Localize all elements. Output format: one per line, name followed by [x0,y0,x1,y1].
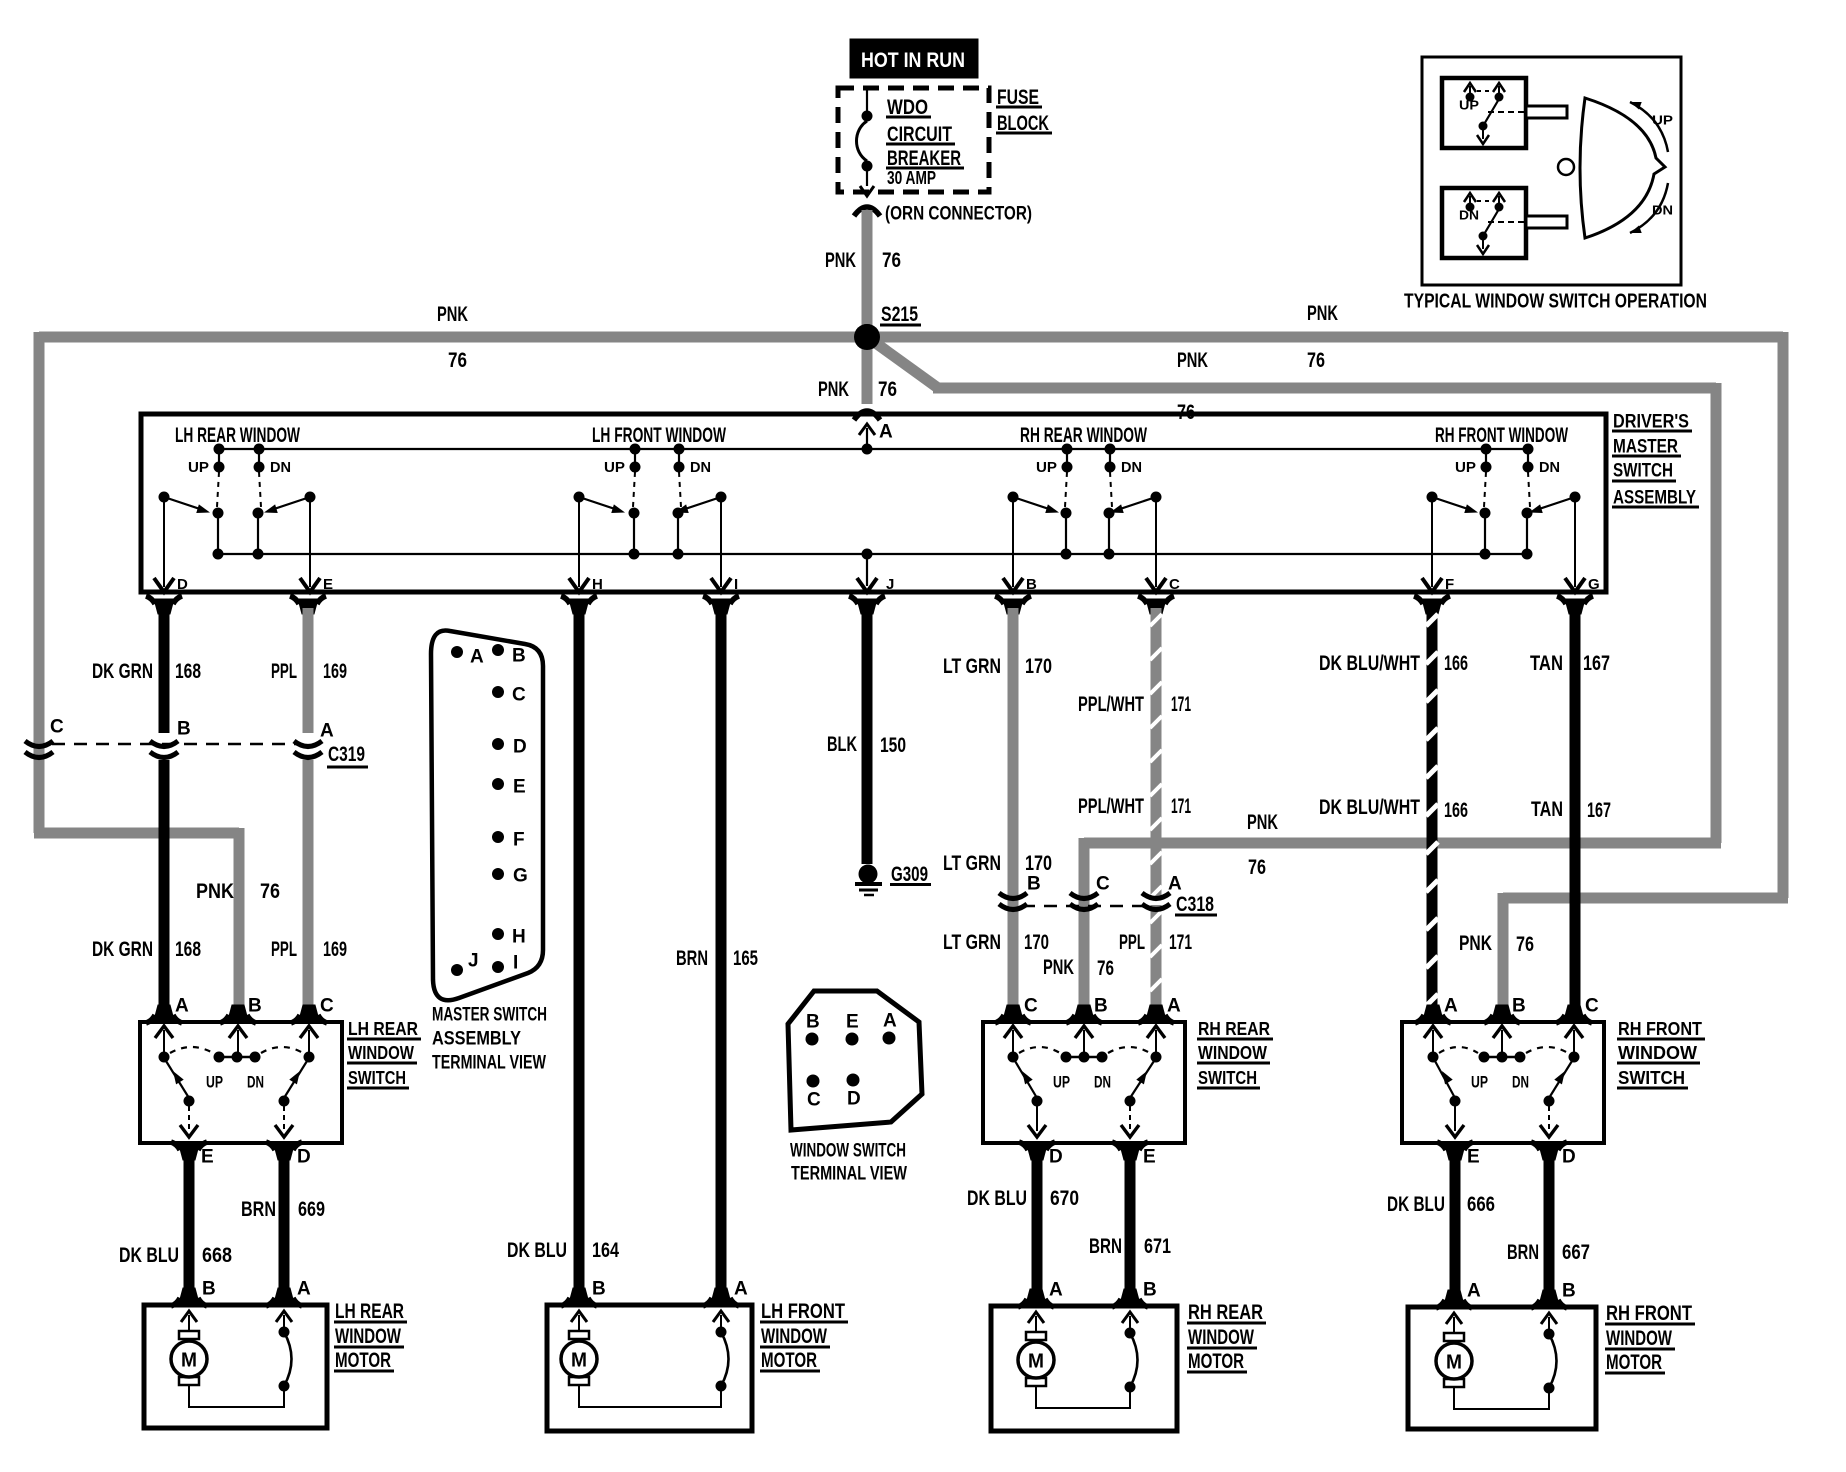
wire PNK 76 left branch horizontal to LH rear switch [34,828,239,839]
svg-text:76: 76 [1248,856,1266,879]
svg-text:B: B [512,646,526,667]
terminal view pin A [451,646,463,658]
svg-text:J: J [886,576,894,593]
svg-text:D: D [297,1147,311,1168]
wire LT GRN 170 (master B to RH rear switch C) [1008,608,1019,1008]
svg-text:170: 170 [1025,852,1052,875]
svg-text:DK GRN: DK GRN [92,938,153,961]
svg-text:668: 668 [202,1244,232,1267]
connector (ORN CONNECTOR) [854,207,880,216]
wire DK BLU 668 (LH rear switch E to motor B) [184,1157,195,1292]
splice S215 [854,324,880,350]
svg-text:DK BLU: DK BLU [967,1187,1027,1210]
terminal view pin I [492,961,504,973]
wire PNK 76 down to connector C318 cavity C [1079,838,1090,1008]
svg-text:C: C [320,996,334,1017]
svg-text:D: D [1562,1147,1576,1168]
svg-text:C318: C318 [1176,893,1214,916]
svg-text:E: E [323,576,333,593]
wire BRN 165 (master I to LH front motor A) [716,608,727,1292]
output lines to bottom pins [1036,1106,1038,1131]
svg-text:BRN: BRN [241,1198,276,1221]
svg-text:167: 167 [1587,799,1611,822]
svg-text:C: C [1169,576,1180,593]
pin arrows (top) [155,1026,173,1038]
svg-text:B: B [806,1012,820,1033]
svg-text:UP: UP [1036,459,1057,476]
svg-text:TYPICAL WINDOW SWITCH OPERATIO: TYPICAL WINDOW SWITCH OPERATION [1404,290,1707,312]
svg-text:PNK: PNK [1459,932,1492,955]
svg-text:M: M [1446,1351,1462,1373]
svg-text:A: A [883,1011,897,1032]
svg-text:SWITCH: SWITCH [1618,1068,1685,1088]
circuit breaker WDO 30 AMP [866,88,868,112]
svg-text:PNK: PNK [825,249,856,272]
window motor box [547,1305,752,1431]
svg-text:B: B [1562,1281,1576,1302]
svg-text:DK BLU: DK BLU [1387,1193,1445,1216]
svg-text:DN: DN [1094,1072,1111,1091]
terminal view pin B [492,644,504,656]
svg-text:UP: UP [188,459,209,476]
wire PNK 76 left branch down to LH rear window switch pin B [234,828,245,1008]
svg-text:PNK: PNK [1247,811,1278,834]
motor armature M [569,1331,589,1339]
svg-text:WINDOW: WINDOW [335,1325,401,1348]
svg-text:I: I [513,953,518,974]
svg-text:LH REAR: LH REAR [335,1300,404,1323]
inset arrow DN [1630,183,1668,233]
svg-text:C: C [1585,996,1599,1017]
connector terminals at motor pins [1026,1289,1046,1304]
typical window switch operation inset box [1422,57,1681,285]
switch unit LH FRONT WINDOW feed stubs and contacts UP/DN [630,444,641,455]
motor armature M [179,1331,199,1339]
wire DK GRN 168 (master D to LH rear switch A) [159,608,170,733]
svg-text:LT GRN: LT GRN [943,655,1001,678]
terminal view pin E [492,778,504,790]
svg-text:RH FRONT: RH FRONT [1606,1302,1692,1325]
svg-text:PNK: PNK [1177,349,1208,372]
svg-text:WINDOW: WINDOW [1188,1326,1254,1349]
output lines to pins B C [1012,501,1014,587]
svg-text:B: B [177,719,191,740]
connector terminals at motor pins [569,1288,589,1303]
terminal view pin F [492,831,504,843]
output lines to pins F G [1431,501,1433,587]
svg-text:171: 171 [1171,693,1191,716]
svg-text:PNK: PNK [1307,302,1338,325]
wire DK BLU/WHT 166 (master F to RH front switch A) [1427,608,1438,1008]
svg-text:DK BLU: DK BLU [507,1239,567,1262]
svg-text:TAN: TAN [1531,798,1563,821]
svg-text:C: C [50,717,64,738]
contact row [159,1052,170,1063]
inset arrow UP [1630,102,1668,152]
svg-text:B: B [1026,576,1037,593]
svg-text:UP: UP [1652,112,1673,127]
svg-text:HOT IN RUN: HOT IN RUN [861,49,965,72]
svg-text:RH REAR: RH REAR [1188,1301,1263,1324]
dashed actuator links [1065,472,1067,507]
svg-text:LT GRN: LT GRN [943,852,1001,875]
rest contacts to output bus [1480,508,1491,519]
svg-text:WINDOW: WINDOW [761,1325,827,1348]
wiper pivots (outputs) [1008,492,1019,503]
svg-text:A: A [297,1279,311,1300]
svg-text:670: 670 [1050,1187,1079,1210]
wiper arms to outputs [166,1061,189,1098]
svg-text:UP: UP [1459,97,1479,112]
ground G309 [859,865,878,884]
svg-text:165: 165 [733,947,758,970]
inset mini switch UP [1442,78,1526,148]
splice S215 junction dot [854,324,880,350]
output lines to pins D E [163,501,165,587]
wire DK BLU 666 (RH front switch E to motor A) [1450,1157,1461,1292]
svg-text:B: B [1512,996,1526,1017]
dashed actuator links [1484,472,1486,507]
svg-text:DN: DN [1121,459,1142,476]
svg-text:UP: UP [1471,1072,1488,1091]
window switch box [1402,1022,1604,1143]
inset mini switch DN [1442,188,1526,258]
wire TAN 167 (master G to RH front switch C) [1570,608,1581,1008]
terminal view pin G [492,868,504,880]
svg-text:LH REAR: LH REAR [348,1019,418,1039]
svg-text:B: B [592,1279,606,1300]
rest contacts to output bus [629,508,640,519]
wire PPL/WHT 171 (master C to RH rear switch A) [1151,608,1162,900]
svg-text:S215: S215 [881,303,918,326]
svg-text:TERMINAL VIEW: TERMINAL VIEW [791,1164,907,1185]
svg-text:169: 169 [323,660,347,683]
svg-text:76: 76 [1307,349,1325,372]
pin J output from master switch [862,549,873,560]
svg-text:H: H [592,576,603,593]
svg-text:C: C [807,1090,821,1111]
svg-text:166: 166 [1444,799,1468,822]
window switch terminal view connector [788,991,922,1130]
svg-text:MOTOR: MOTOR [1188,1350,1244,1373]
svg-text:E: E [846,1012,859,1033]
terminal view pin D [492,738,504,750]
svg-text:B: B [1027,874,1041,895]
connector terminal at master switch output x=1156 [1146,599,1166,614]
svg-text:M: M [181,1349,197,1371]
connector terminal at master switch output x=1432 [1422,599,1442,614]
svg-text:TERMINAL VIEW: TERMINAL VIEW [432,1053,546,1074]
svg-text:DN: DN [690,459,711,476]
svg-text:ASSEMBLY: ASSEMBLY [432,1029,521,1050]
svg-text:E: E [201,1147,214,1168]
connector terminal at master switch output x=1575 [1565,599,1585,614]
wire PNK 76 outer right vertical [1778,332,1789,898]
connector terminal at master switch output x=867 [857,599,877,614]
svg-text:E: E [513,777,526,798]
svg-text:MOTOR: MOTOR [335,1349,391,1372]
svg-text:UP: UP [206,1072,223,1091]
svg-text:76: 76 [878,378,897,401]
motor commutator arc [1544,1329,1555,1340]
svg-text:RH REAR: RH REAR [1198,1019,1270,1039]
svg-text:BRN: BRN [676,947,708,970]
wire BRN 671 (RH rear switch E to motor B) [1125,1157,1136,1292]
svg-text:671: 671 [1144,1235,1171,1258]
svg-text:166: 166 [1444,652,1468,675]
svg-text:DN: DN [270,459,291,476]
wire BLK 150 (master J to ground G309) [862,608,873,864]
wire PNK 76 inner right vertical [1711,383,1722,843]
svg-text:RH FRONT WINDOW: RH FRONT WINDOW [1435,424,1568,447]
svg-text:DK BLU/WHT: DK BLU/WHT [1319,796,1420,819]
svg-text:G: G [1588,576,1600,593]
svg-text:76: 76 [260,880,280,903]
svg-text:DN: DN [247,1072,264,1091]
output lines to bottom pins [1454,1106,1456,1131]
connector terminal at master switch output x=308 [298,599,318,614]
svg-text:B: B [1094,996,1108,1017]
dashed actuator arcs [1019,1047,1060,1053]
svg-text:D: D [177,576,188,593]
svg-text:C319: C319 [328,743,365,766]
wire PNK 76 main horizontal bus [39,332,1783,343]
node: master switch feed bus (top) [219,448,1528,450]
connector at master switch pin A [854,411,880,420]
svg-text:PPL: PPL [1119,931,1145,954]
motor internal return path [1454,1387,1549,1409]
svg-text:PNK: PNK [196,880,234,903]
wiper pivots (outputs) [574,492,585,503]
svg-text:A: A [1049,1280,1063,1301]
svg-text:A: A [1167,996,1181,1017]
dashed actuator links [633,472,635,507]
svg-text:B: B [248,996,262,1017]
svg-text:168: 168 [175,660,201,683]
svg-text:B: B [202,1279,216,1300]
svg-text:MOTOR: MOTOR [761,1349,817,1372]
svg-text:171: 171 [1169,931,1192,954]
pin arrows (top) [1004,1026,1022,1038]
svg-text:WINDOW: WINDOW [1606,1327,1672,1350]
wire PNK 76 inner horizontal to RH rear switch column [1084,838,1721,849]
svg-text:PPL/WHT: PPL/WHT [1078,795,1144,818]
svg-text:PNK: PNK [437,303,468,326]
svg-text:C: C [1096,874,1110,895]
svg-text:BRN: BRN [1507,1241,1539,1264]
switch unit LH REAR WINDOW feed stubs and contacts UP/DN [214,444,225,455]
svg-text:76: 76 [882,249,901,272]
window motor box [991,1306,1177,1431]
wire DK BLU 670 (RH rear switch D to motor A) [1032,1157,1043,1292]
svg-text:BLK: BLK [827,733,857,756]
output lines to pins H I [578,501,580,587]
wire PNK 76 branch from S215 to master switch pin A [862,343,873,404]
motor armature M [1026,1332,1046,1340]
motor pin arrows [181,1311,197,1322]
switch unit RH FRONT WINDOW feed stubs and contacts UP/DN [1481,444,1492,455]
svg-text:J: J [468,951,479,972]
motor commutator arc [279,1327,290,1338]
connector terminal at master switch output x=721 [711,599,731,614]
svg-text:A: A [879,422,893,443]
dashed actuator links [217,472,219,507]
svg-text:SWITCH: SWITCH [1198,1068,1257,1088]
window switch terminal view pin E [846,1033,859,1046]
svg-text:F: F [1445,576,1454,593]
window switch box [140,1022,342,1143]
terminal view pin J [451,964,463,976]
svg-text:UP: UP [604,459,625,476]
svg-text:DK BLU: DK BLU [119,1244,179,1267]
svg-text:DN: DN [1539,459,1560,476]
svg-text:LH FRONT WINDOW: LH FRONT WINDOW [592,424,726,447]
wiper arms [164,497,206,511]
svg-text:LH REAR WINDOW: LH REAR WINDOW [175,424,300,447]
svg-text:D: D [513,737,527,758]
svg-text:164: 164 [592,1239,619,1262]
svg-text:669: 669 [298,1198,325,1221]
svg-text:WINDOW: WINDOW [1618,1043,1697,1063]
connector terminals at switch pins [154,1005,174,1020]
svg-text:MASTER SWITCH: MASTER SWITCH [432,1005,547,1026]
svg-text:BRN: BRN [1089,1235,1122,1258]
window switch terminal view pin D [847,1074,860,1087]
window switch box [983,1022,1185,1143]
svg-text:C: C [1024,996,1038,1017]
svg-text:M: M [571,1349,587,1371]
svg-text:UP: UP [1455,459,1476,476]
svg-text:PNK: PNK [818,378,849,401]
svg-text:H: H [512,927,526,948]
wire PNK 76 down to RH front window switch pin B [1498,893,1509,1008]
svg-text:170: 170 [1025,655,1052,678]
wire PNK 76 outer horizontal to RH front switch column [1503,893,1788,904]
dashed actuator arcs [170,1047,213,1053]
connector C319 (in-line) [150,741,178,747]
connector terminals at motor pins [1444,1290,1464,1305]
svg-text:666: 666 [1467,1193,1495,1216]
connector terminals at motor pins [179,1288,199,1303]
contact row [1428,1052,1439,1063]
svg-text:171: 171 [1171,795,1191,818]
window motor box [1408,1307,1596,1429]
motor commutator arc [1125,1328,1136,1339]
dashed actuator arcs [1439,1047,1478,1053]
wire DK BLU 164 (master H to LH front motor B) [574,608,585,1292]
terminal view pin C [492,686,504,698]
svg-text:76: 76 [1516,933,1534,956]
node: master switch output bus (bottom) [218,553,1528,555]
motor armature M [1444,1333,1464,1341]
svg-text:DK BLU/WHT: DK BLU/WHT [1319,652,1420,675]
svg-text:PPL: PPL [271,660,297,683]
motor internal return path [189,1385,284,1407]
svg-text:170: 170 [1024,931,1049,954]
wiper arms [1013,497,1055,511]
svg-text:G309: G309 [891,863,928,886]
svg-text:E: E [1143,1147,1156,1168]
wire PPL 169 (master E to LH rear switch C) [303,608,314,733]
svg-text:DN: DN [1512,1072,1529,1091]
connector terminal at master switch output x=1013 [1003,599,1023,614]
svg-text:RH REAR WINDOW: RH REAR WINDOW [1020,424,1147,447]
window switch terminal view pin A [883,1032,896,1045]
svg-text:G: G [513,866,528,887]
power feed label HOT IN RUN [850,39,978,78]
svg-text:SWITCH: SWITCH [348,1068,406,1088]
wire PNK 76 from fuse block to splice S215 [862,210,873,333]
svg-text:F: F [513,830,525,851]
svg-text:LH FRONT: LH FRONT [761,1300,845,1323]
svg-text:76: 76 [448,349,467,372]
svg-text:RH FRONT: RH FRONT [1618,1019,1702,1039]
svg-text:150: 150 [880,734,906,757]
svg-text:TAN: TAN [1530,652,1563,675]
svg-text:168: 168 [175,938,201,961]
svg-text:PNK: PNK [1043,956,1074,979]
motor internal return path [579,1385,721,1407]
motor pin arrows [1446,1313,1462,1324]
wire BRN 669 (LH rear switch D to motor A) [279,1157,290,1292]
svg-text:D: D [847,1089,861,1110]
svg-text:M: M [1028,1350,1044,1372]
window switch terminal view pin C [807,1075,820,1088]
wiper arms [579,497,621,511]
svg-text:B: B [1143,1280,1157,1301]
svg-text:SWITCH: SWITCH [1613,461,1673,482]
svg-text:167: 167 [1583,652,1610,675]
output lines to bottom pins [188,1106,190,1131]
svg-text:E: E [1467,1147,1480,1168]
motor pin arrows [1028,1312,1044,1323]
svg-text:A: A [1444,996,1458,1017]
svg-text:MOTOR: MOTOR [1606,1351,1662,1374]
wiper arms to outputs [1435,1061,1455,1098]
rest contacts to output bus [213,508,224,519]
pin arrows (top) [1424,1026,1442,1038]
connector C318 (in-line) [999,893,1027,899]
svg-text:PPL: PPL [271,938,297,961]
svg-text:PPL/WHT: PPL/WHT [1078,693,1144,716]
wire PNK 76 inner right horizontal [933,383,1716,394]
svg-text:DK GRN: DK GRN [92,660,153,683]
pin A entry into master switch [859,424,875,435]
wiper pivots (outputs) [1427,492,1438,503]
svg-text:A: A [1467,1281,1481,1302]
svg-text:DN: DN [1459,207,1479,222]
svg-text:76: 76 [1097,957,1114,980]
wiper arms to outputs [1015,1061,1037,1098]
svg-text:169: 169 [323,938,347,961]
rest contacts to output bus [1061,508,1072,519]
motor internal return path [1036,1386,1130,1408]
svg-text:A: A [734,1279,748,1300]
window motor box [144,1305,327,1428]
svg-text:LT GRN: LT GRN [943,931,1001,954]
svg-text:A: A [470,647,484,668]
motor pin arrows [571,1311,587,1322]
svg-text:D: D [1049,1147,1063,1168]
svg-text:A: A [320,721,334,742]
svg-text:WINDOW: WINDOW [1198,1043,1267,1063]
switch unit RH REAR WINDOW feed stubs and contacts UP/DN [1062,444,1073,455]
svg-text:30 AMP: 30 AMP [887,168,936,188]
driver's master switch assembly box [141,414,1606,592]
wire PNK 76 diagonal branch from S215 [866,336,938,388]
window switch terminal view pin B [806,1033,819,1046]
terminal view pin H [492,928,504,940]
